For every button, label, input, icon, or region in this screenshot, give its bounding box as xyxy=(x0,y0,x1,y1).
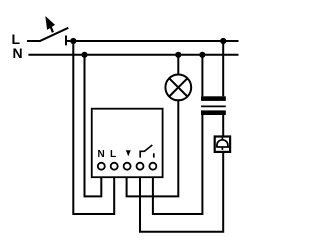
wire trafo left to terminal 5 xyxy=(153,115,203,214)
actuation arrow xyxy=(46,17,54,29)
device box U1 xyxy=(92,109,163,178)
switch S1 fixed contact bar xyxy=(65,36,67,46)
wire lamp bottom to terminal arrow xyxy=(127,100,179,196)
node N drop junction xyxy=(81,52,87,58)
terminal 1 N xyxy=(98,163,105,170)
transformer T1 winding 1 xyxy=(201,96,226,101)
transformer T1 winding 2 xyxy=(201,110,226,115)
wire push button to terminal 4 xyxy=(140,152,223,232)
node N trafo junction xyxy=(199,52,205,58)
svg-text:L: L xyxy=(110,149,116,160)
lamp E1 xyxy=(165,75,191,101)
wire L line xyxy=(66,40,239,42)
node L drop junction xyxy=(70,38,76,44)
wire N line xyxy=(28,54,238,56)
terminal 3 output xyxy=(124,163,131,170)
switch S1 lead xyxy=(27,40,40,42)
wire lamp top xyxy=(177,55,179,75)
node N lamp junction xyxy=(175,52,181,58)
push button SB1 box xyxy=(215,137,230,152)
transformer T1 core xyxy=(201,105,226,107)
svg-text:N: N xyxy=(98,149,105,160)
wire trafo left from N xyxy=(201,55,203,97)
wire from L to terminal L xyxy=(73,41,114,214)
svg-text:N: N xyxy=(13,45,23,61)
terminal 4 xyxy=(137,163,144,170)
wire from N to terminal N xyxy=(85,55,102,197)
push button bell dome xyxy=(217,140,228,147)
terminal 5 xyxy=(149,163,156,170)
terminal 2 L xyxy=(111,163,118,170)
switch contact symbol in box xyxy=(140,145,152,158)
wire trafo right from L xyxy=(222,41,224,96)
terminal label arrow (dimmer output) xyxy=(126,150,131,156)
node L trafo junction xyxy=(220,38,226,44)
switch S1 blade xyxy=(39,28,68,42)
wire trafo right to push button xyxy=(222,115,224,137)
